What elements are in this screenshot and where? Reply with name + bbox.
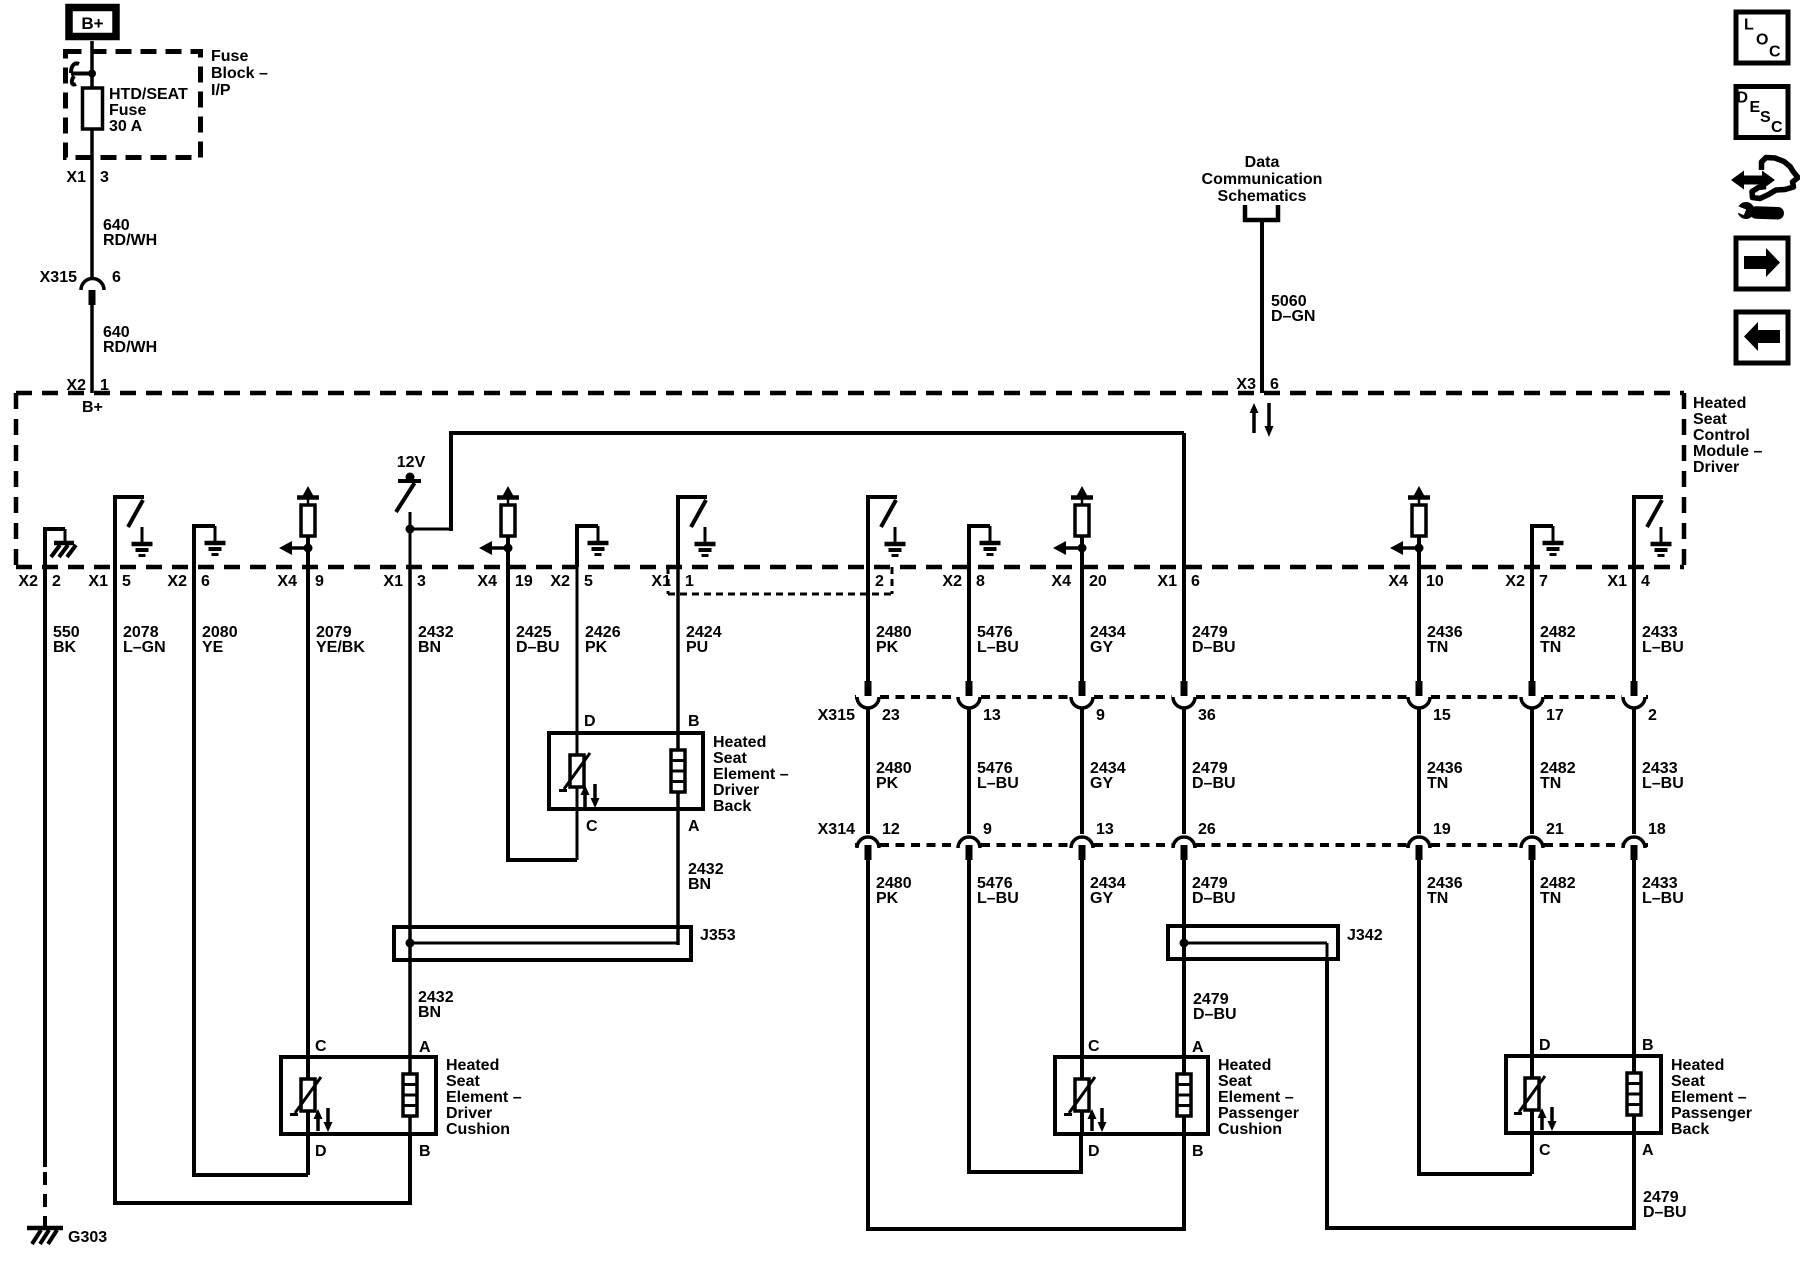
svg-text:Passenger: Passenger	[1218, 1105, 1299, 1122]
pin X4-20 driver output	[1053, 486, 1093, 567]
pin X2-5 ground	[575, 524, 609, 567]
svg-text:B: B	[688, 713, 700, 730]
svg-text:L–BU: L–BU	[977, 639, 1019, 656]
wire 2480 segments	[868, 567, 912, 1229]
svg-text:GY: GY	[1090, 775, 1113, 792]
wire 2079 YE/BK	[308, 567, 365, 1059]
svg-text:9: 9	[983, 821, 992, 838]
svg-text:Control: Control	[1693, 427, 1750, 444]
svg-text:A: A	[1192, 1039, 1204, 1056]
wire cushion B to 2078	[408, 1134, 412, 1205]
wire X1-3 internal	[409, 512, 412, 567]
fuse HTD/SEAT Fuse 30 A	[83, 86, 189, 135]
svg-text:E: E	[1750, 99, 1761, 116]
12V source and switch at X1-3	[396, 454, 426, 512]
heated seat element passenger cushion box	[1055, 1057, 1299, 1138]
pin label X1 5	[88, 573, 131, 590]
svg-text:Back: Back	[713, 798, 751, 815]
svg-text:C: C	[315, 1038, 327, 1055]
wire 2080 YE	[192, 567, 308, 1175]
svg-text:6: 6	[1191, 573, 1200, 590]
pin label X2 7	[1505, 573, 1548, 590]
pin X1-1 switch to ground	[676, 495, 716, 567]
svg-text:D–BU: D–BU	[1192, 890, 1236, 907]
svg-text:C: C	[1771, 119, 1783, 136]
wire 5060 D-GN	[1262, 220, 1315, 393]
wire 2425 D-BU	[506, 567, 577, 860]
wire 2479 segments	[1184, 567, 1236, 929]
svg-text:D: D	[584, 713, 596, 730]
wire 550 BK	[45, 567, 80, 1228]
svg-text:Seat: Seat	[713, 750, 747, 767]
svg-text:BK: BK	[53, 639, 77, 656]
pin X4-9 driver output	[279, 486, 319, 567]
svg-text:Schematics: Schematics	[1218, 188, 1307, 205]
svg-text:9: 9	[315, 573, 324, 590]
pin X2-2 chassis ground inside module	[43, 527, 76, 567]
icon DESC box	[1736, 87, 1788, 138]
svg-text:GY: GY	[1090, 890, 1113, 907]
pin label X4 20	[1051, 573, 1106, 590]
svg-text:30 A: 30 A	[109, 118, 143, 135]
pin label X1 6	[1157, 573, 1200, 590]
svg-text:Fuse: Fuse	[109, 102, 146, 119]
wire 2432 BN J353 to cushion A	[410, 960, 454, 1059]
pin X2-8 ground	[967, 524, 1001, 567]
svg-text:X1: X1	[66, 169, 86, 186]
svg-text:G303: G303	[68, 1229, 107, 1246]
svg-text:D: D	[1737, 90, 1749, 107]
svg-text:L–BU: L–BU	[977, 890, 1019, 907]
splice pack J353	[394, 927, 736, 960]
wire 2479 D-BU J342 to passenger cushion A	[1184, 959, 1237, 1059]
wire 5476 segments	[969, 567, 1019, 1172]
wire 640 RD/WH upper	[92, 160, 157, 280]
svg-text:Driver: Driver	[446, 1105, 492, 1122]
svg-text:12: 12	[882, 821, 900, 838]
svg-text:X2: X2	[167, 573, 187, 590]
wire 2426 PK	[577, 567, 621, 735]
svg-text:HTD/SEAT: HTD/SEAT	[109, 86, 188, 103]
svg-text:8: 8	[976, 573, 985, 590]
svg-text:C: C	[1539, 1142, 1551, 1159]
svg-text:D: D	[315, 1143, 327, 1160]
icon arrow left box	[1736, 312, 1788, 363]
svg-text:D–BU: D–BU	[516, 639, 560, 656]
pin label X2 5	[550, 573, 593, 590]
svg-text:Heated: Heated	[446, 1057, 499, 1074]
svg-text:Element –: Element –	[1671, 1089, 1747, 1106]
pin X4-19 driver output	[479, 486, 519, 567]
heated seat control module box	[16, 393, 1762, 567]
svg-text:TN: TN	[1540, 639, 1561, 656]
thermistor driver cushion	[290, 1057, 333, 1134]
junction X1-3	[406, 525, 415, 534]
wire B+ to fuse	[90, 41, 94, 73]
svg-text:X315: X315	[40, 269, 77, 286]
thermistor passenger cushion	[1064, 1057, 1107, 1134]
svg-text:X2: X2	[550, 573, 570, 590]
pin X2 1 of module	[66, 377, 109, 394]
svg-text:Cushion: Cushion	[446, 1121, 510, 1138]
svg-text:12V: 12V	[397, 454, 426, 471]
svg-text:21: 21	[1546, 821, 1564, 838]
inline connector row X315	[818, 681, 1657, 724]
pin labels D B C A passenger back	[1539, 1037, 1654, 1159]
thermistor driver back	[559, 733, 600, 809]
svg-text:2: 2	[52, 573, 61, 590]
svg-text:2: 2	[1648, 707, 1657, 724]
ground G303	[27, 1228, 107, 1246]
svg-text:Module –: Module –	[1693, 443, 1762, 460]
icon switch tool	[1731, 158, 1798, 220]
svg-text:X4: X4	[277, 573, 297, 590]
wire 2480 PK run to passenger cushion B	[866, 1227, 1184, 1231]
wire 2432 BN from X1-3	[410, 567, 454, 929]
pin label X1 3	[383, 573, 426, 590]
svg-text:5: 5	[584, 573, 593, 590]
svg-text:L–BU: L–BU	[1642, 639, 1684, 656]
svg-text:YE/BK: YE/BK	[316, 639, 365, 656]
svg-text:B+: B+	[82, 399, 103, 416]
wire 2436 TN run to passenger back C	[1417, 1172, 1532, 1176]
wire breaker to fuse	[90, 73, 94, 90]
wire fuse to X1-3	[90, 129, 94, 160]
svg-text:Driver: Driver	[1693, 459, 1739, 476]
pin label X2 2	[18, 573, 61, 590]
wire 2433 segments	[1634, 567, 1684, 1058]
svg-text:TN: TN	[1427, 639, 1448, 656]
svg-text:C: C	[586, 818, 598, 835]
wire 2434 segments	[1082, 567, 1126, 1059]
heater element passenger cushion	[1177, 1057, 1191, 1134]
svg-text:2: 2	[875, 573, 884, 590]
pin label X2 6	[167, 573, 210, 590]
svg-text:S: S	[1760, 109, 1771, 126]
svg-text:Seat: Seat	[1218, 1073, 1252, 1090]
svg-text:13: 13	[1096, 821, 1114, 838]
svg-text:J342: J342	[1347, 927, 1383, 944]
svg-text:3: 3	[417, 573, 426, 590]
wire 2482 segments	[1532, 567, 1576, 1058]
svg-text:TN: TN	[1427, 890, 1448, 907]
svg-text:PU: PU	[686, 639, 708, 656]
svg-text:X4: X4	[1388, 573, 1408, 590]
svg-text:PK: PK	[876, 775, 899, 792]
wire 2424 PU	[678, 567, 722, 735]
svg-text:L: L	[1744, 17, 1754, 34]
svg-text:26: 26	[1198, 821, 1216, 838]
svg-text:A: A	[1642, 1142, 1654, 1159]
svg-text:J353: J353	[700, 927, 736, 944]
wire 2436 segments	[1419, 567, 1463, 1174]
svg-text:B: B	[419, 1143, 431, 1160]
svg-text:X4: X4	[1051, 573, 1071, 590]
wire cushion D to 2080	[306, 1134, 310, 1175]
svg-text:17: 17	[1546, 707, 1564, 724]
heater element passenger back	[1627, 1056, 1641, 1133]
svg-text:X314: X314	[818, 821, 855, 838]
pin label X2 8	[942, 573, 985, 590]
svg-text:D–BU: D–BU	[1192, 639, 1236, 656]
svg-text:10: 10	[1426, 573, 1444, 590]
svg-text:D–BU: D–BU	[1193, 1006, 1237, 1023]
svg-text:BN: BN	[418, 1004, 441, 1021]
inline connector row X314	[818, 821, 1666, 860]
heated seat element driver cushion box	[281, 1057, 522, 1138]
svg-text:X2: X2	[942, 573, 962, 590]
pin X2-7 ground	[1530, 524, 1564, 567]
svg-text:X4: X4	[477, 573, 497, 590]
svg-text:TN: TN	[1540, 890, 1561, 907]
heater element driver back	[671, 733, 685, 809]
svg-text:Back: Back	[1671, 1121, 1709, 1138]
svg-text:X3: X3	[1236, 376, 1256, 393]
svg-text:Fuse: Fuse	[211, 48, 248, 65]
svg-text:6: 6	[1270, 376, 1279, 393]
pin X1-4 switch to ground	[1632, 495, 1672, 567]
svg-text:6: 6	[112, 269, 121, 286]
svg-text:19: 19	[1433, 821, 1451, 838]
svg-text:GY: GY	[1090, 639, 1113, 656]
svg-text:Heated: Heated	[1671, 1057, 1724, 1074]
svg-text:19: 19	[515, 573, 533, 590]
heated seat element passenger back box	[1506, 1056, 1752, 1138]
wire 2078 L-GN	[113, 567, 410, 1203]
svg-text:I/P: I/P	[211, 82, 231, 99]
svg-text:23: 23	[882, 707, 900, 724]
power symbol B+	[69, 8, 116, 37]
svg-text:Seat: Seat	[1671, 1073, 1705, 1090]
svg-text:D: D	[1539, 1037, 1551, 1054]
fuse block dashed box Fuse Block - I/P	[66, 48, 269, 158]
svg-text:Element –: Element –	[446, 1089, 522, 1106]
pin X2-6 ground	[192, 524, 226, 567]
svg-text:Passenger: Passenger	[1671, 1105, 1752, 1122]
svg-text:Driver: Driver	[713, 782, 759, 799]
svg-text:TN: TN	[1540, 775, 1561, 792]
svg-text:D: D	[1088, 1143, 1100, 1160]
svg-text:TN: TN	[1427, 775, 1448, 792]
svg-text:Element –: Element –	[1218, 1089, 1294, 1106]
pin labels C A D B driver cushion	[315, 1038, 431, 1160]
data communication schematics reference	[1202, 154, 1323, 220]
svg-text:Seat: Seat	[1693, 411, 1727, 428]
svg-text:D–BU: D–BU	[1643, 1204, 1687, 1221]
svg-text:Heated: Heated	[1218, 1057, 1271, 1074]
wire 2479 D-BU J342 branch to passenger back A	[1325, 959, 1687, 1230]
svg-text:RD/WH: RD/WH	[103, 339, 157, 356]
circuit breaker hook	[71, 63, 96, 84]
pin label X4 9	[277, 573, 324, 590]
svg-text:1: 1	[685, 573, 694, 590]
serial data arrows	[1250, 403, 1274, 437]
svg-text:Data: Data	[1245, 154, 1280, 171]
connector X315 pin 6	[40, 269, 121, 305]
dashed link box pins 1-2	[668, 567, 892, 594]
svg-text:6: 6	[201, 573, 210, 590]
svg-text:Element –: Element –	[713, 766, 789, 783]
pin label X1 4	[1607, 573, 1650, 590]
splice pack J342	[1168, 926, 1383, 959]
svg-text:Cushion: Cushion	[1218, 1121, 1282, 1138]
pin label X4 10	[1388, 573, 1443, 590]
svg-text:L–BU: L–BU	[977, 775, 1019, 792]
svg-text:7: 7	[1539, 573, 1548, 590]
svg-text:X1: X1	[1607, 573, 1627, 590]
thermistor passenger back	[1514, 1056, 1557, 1133]
svg-text:13: 13	[983, 707, 1001, 724]
svg-text:B+: B+	[81, 14, 103, 33]
svg-text:36: 36	[1198, 707, 1216, 724]
svg-text:Heated: Heated	[713, 734, 766, 751]
svg-text:RD/WH: RD/WH	[103, 232, 157, 249]
svg-text:X1: X1	[1157, 573, 1177, 590]
svg-text:BN: BN	[688, 876, 711, 893]
pin labels C A D B passenger cushion	[1088, 1038, 1204, 1160]
svg-text:4: 4	[1641, 573, 1650, 590]
svg-text:X2: X2	[18, 573, 38, 590]
svg-text:A: A	[419, 1039, 431, 1056]
wire 2432 BN element A to J353	[678, 809, 724, 945]
svg-text:X1: X1	[383, 573, 403, 590]
svg-text:Communication: Communication	[1202, 171, 1323, 188]
svg-text:9: 9	[1096, 707, 1105, 724]
svg-text:B: B	[1192, 1143, 1204, 1160]
svg-text:A: A	[688, 818, 700, 835]
svg-text:Heated: Heated	[1693, 395, 1746, 412]
wire 5476 L-BU run to passenger cushion D	[967, 1170, 1081, 1174]
pin label X4 19	[477, 573, 532, 590]
svg-text:X315: X315	[818, 707, 855, 724]
svg-text:L–BU: L–BU	[1642, 775, 1684, 792]
svg-text:D–GN: D–GN	[1271, 308, 1315, 325]
pin X3 6 of module	[1236, 376, 1279, 393]
pin label X1 1	[651, 573, 694, 590]
svg-text:YE: YE	[202, 639, 224, 656]
heater element driver cushion	[403, 1057, 417, 1134]
svg-text:20: 20	[1089, 573, 1107, 590]
svg-text:PK: PK	[876, 890, 899, 907]
svg-text:L–BU: L–BU	[1642, 890, 1684, 907]
svg-text:PK: PK	[876, 639, 899, 656]
svg-text:3: 3	[100, 169, 109, 186]
svg-text:L–GN: L–GN	[123, 639, 166, 656]
pin labels D B C A driver back	[584, 713, 700, 835]
icon arrow right box	[1736, 238, 1788, 289]
svg-text:PK: PK	[585, 639, 608, 656]
wire 12V feed to X1-6	[410, 433, 1184, 567]
svg-text:B: B	[1642, 1037, 1654, 1054]
pin X1-5 switch to ground	[113, 495, 153, 567]
pin X1-2 switch to ground	[866, 495, 906, 567]
heated seat element driver back box	[549, 733, 789, 815]
svg-text:Block –: Block –	[211, 65, 268, 82]
wire 640 RD/WH lower	[92, 305, 157, 393]
icon LOC box	[1736, 12, 1788, 63]
svg-text:C: C	[1769, 44, 1781, 61]
svg-text:BN: BN	[418, 639, 441, 656]
svg-text:15: 15	[1433, 707, 1451, 724]
pin X4-10 driver output	[1390, 486, 1430, 567]
svg-text:Seat: Seat	[446, 1073, 480, 1090]
svg-text:X2: X2	[1505, 573, 1525, 590]
svg-text:C: C	[1088, 1038, 1100, 1055]
svg-text:O: O	[1756, 32, 1768, 49]
svg-text:D–BU: D–BU	[1192, 775, 1236, 792]
pin X1 3 of fuse block	[66, 169, 109, 186]
svg-text:5: 5	[122, 573, 131, 590]
svg-text:X1: X1	[88, 573, 108, 590]
svg-text:18: 18	[1648, 821, 1666, 838]
